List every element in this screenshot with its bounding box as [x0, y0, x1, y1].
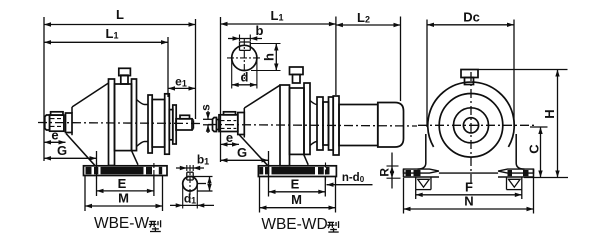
dimension h — [275, 44, 277, 71]
svg-text:G: G — [57, 143, 67, 158]
middle view: bolt hole centerline right — [325, 163, 327, 181]
middle view: extension line shaft end (x=220.5) — [220, 17, 222, 162]
dimension E (middle) — [269, 191, 326, 193]
dimension G (middle) — [221, 159, 269, 161]
left view: front ring — [66, 113, 73, 133]
right view: lug hatch left — [406, 170, 412, 176]
dimension C — [540, 127, 542, 178]
left view: dimension extension line (shaft end, x=44) — [43, 17, 45, 161]
right view: base left lug — [404, 169, 439, 173]
svg-text:C: C — [526, 144, 541, 154]
dimension e (input shaft) — [44, 141, 66, 143]
detail crosshair horizontal — [227, 57, 262, 59]
left view: hub hidden lines — [51, 118, 63, 120]
dimension G — [44, 157, 97, 159]
right view: lug hatch right — [508, 170, 513, 176]
svg-text:H: H — [542, 109, 557, 118]
left view: output shaft key — [180, 115, 190, 119]
middle view: breather plug cap — [290, 67, 304, 75]
middle view: input shaft neck — [217, 120, 220, 130]
label n-d0 leader — [327, 184, 373, 186]
right view: V mark left — [418, 179, 430, 187]
left view: cone housing top line — [72, 83, 109, 107]
svg-text:M: M — [118, 190, 129, 205]
svg-text:WBE-WD: WBE-WD — [261, 216, 327, 233]
right view: outer housing arc — [428, 82, 514, 147]
dimension R — [391, 153, 393, 189]
middle view: main body — [290, 88, 305, 154]
left view: breather plug stem — [121, 75, 128, 84]
right view: V mark right — [509, 179, 521, 187]
detail keyway slot b1 — [187, 172, 193, 180]
detail d1 vertical centerline — [189, 165, 191, 203]
left view: neck with fillets — [137, 100, 149, 147]
middle view: bolt hole centerline left — [268, 163, 270, 181]
dimension b — [228, 38, 262, 40]
left view: base bolt hatch right — [146, 167, 152, 174]
left view: output ring 2 — [152, 100, 165, 148]
dimension N — [404, 208, 534, 210]
dimension H — [557, 70, 559, 178]
left view: output shaft — [176, 119, 192, 130]
dimension M — [85, 205, 163, 207]
left view: extension line shaft end right (x=195.5) — [195, 19, 197, 119]
left view: centerline — [38, 123, 203, 124]
left view: output ring 1 — [148, 95, 152, 153]
left view: cone housing bottom line — [66, 134, 95, 166]
middle view: cone front edge — [243, 108, 245, 113]
left view: base center section fill — [101, 167, 144, 174]
right view: bolt pocket box left — [415, 177, 417, 190]
dimension E — [97, 190, 154, 192]
middle view: motor flange — [333, 96, 339, 155]
dimension L — [44, 24, 196, 26]
middle view: cone bottom line — [239, 135, 268, 166]
dimension b1 extensions — [186, 165, 188, 171]
left view: input hub block — [50, 115, 64, 131]
dimension L1 (middle) — [221, 23, 336, 25]
svg-text:G: G — [237, 145, 247, 160]
left view: bolt hole centerline left — [96, 163, 98, 179]
middle view: input hub block — [219, 115, 238, 132]
svg-text:F: F — [465, 179, 473, 194]
right view: vertical centerline — [470, 72, 472, 184]
dimension s arrows — [207, 111, 209, 119]
right view: top plug stem — [465, 78, 474, 85]
middle view: centerline — [208, 125, 417, 127]
left view: output ring 5 — [173, 105, 176, 144]
middle view: front ring — [238, 113, 245, 135]
svg-text:d: d — [241, 70, 249, 85]
left view: input shaft tip — [45, 115, 50, 130]
svg-text:WBE-W: WBE-W — [94, 215, 149, 232]
svg-text:E: E — [291, 176, 300, 191]
middle view: ring 2 — [323, 102, 329, 145]
left view: output shaft tip step — [192, 119, 194, 121]
dimension d extensions — [231, 60, 233, 89]
right view: Dc extension lines — [426, 20, 428, 128]
detail circle d — [232, 45, 257, 70]
right view: base right lug — [498, 169, 533, 173]
middle view: ring 1 — [317, 97, 323, 150]
dimension d — [232, 84, 257, 86]
middle view: breather plug stem — [293, 75, 301, 84]
svg-text:L: L — [116, 7, 124, 22]
svg-text:M: M — [291, 192, 302, 207]
svg-text:E: E — [118, 176, 127, 191]
svg-text:N: N — [464, 194, 473, 209]
middle view: ring 3 — [329, 97, 334, 150]
svg-text:R: R — [377, 168, 391, 177]
middle view: M extension lines — [259, 177, 261, 213]
left view: bolt hole centerline right — [153, 163, 155, 179]
svg-text:h: h — [261, 53, 276, 61]
dimension h extensions — [250, 43, 280, 45]
right view: shaft hole circle — [463, 118, 478, 133]
middle view: base bolt hatch right — [318, 167, 324, 174]
detail keyway slot b — [240, 42, 251, 50]
dimension L1 — [44, 41, 168, 43]
detail circle d1 — [183, 176, 198, 191]
detail key depth arrows — [209, 177, 211, 192]
left view: front flange — [109, 79, 115, 166]
dimension d1 extensions — [182, 186, 184, 209]
dimension b extensions — [239, 35, 241, 42]
dimension b1 — [176, 167, 204, 169]
middle view: base bolt hatch left — [259, 167, 263, 174]
right view: flange circle — [439, 94, 503, 158]
middle view: input shaft tip — [213, 118, 217, 132]
dimension F — [416, 194, 522, 196]
svg-text:b: b — [256, 23, 264, 38]
middle view: rear support diagonal — [304, 154, 309, 164]
dimension e (middle) — [221, 143, 240, 145]
svg-text:e: e — [51, 127, 58, 142]
left view: rear flange — [132, 79, 137, 151]
detail key depth lines — [194, 176, 213, 178]
right view: F extension lines — [415, 190, 417, 199]
left view: base plate — [84, 166, 168, 176]
svg-text:e: e — [226, 130, 233, 145]
left view: E extension lines — [96, 151, 98, 196]
right view: H top extension — [479, 69, 568, 71]
svg-text:Dc: Dc — [463, 9, 480, 24]
right view: N extension lines — [403, 178, 405, 214]
dimension s ticks — [203, 118, 212, 120]
middle view: extension line L1/L2 (x=335.9) — [335, 17, 337, 96]
right view: bearing circle — [454, 108, 489, 143]
middle view: rear flange — [304, 83, 310, 154]
left view: input hub lid — [51, 112, 63, 115]
detail crosshair vertical — [243, 38, 245, 79]
left view: M extension lines — [84, 176, 86, 211]
left view: output ring 4 — [169, 110, 173, 140]
right view: bottom extension — [524, 177, 568, 179]
right view: horizontal centerline — [418, 124, 537, 126]
right view: bolt pocket box right — [506, 177, 508, 190]
middle view: neck with fillets — [310, 101, 317, 146]
dimension Dc — [427, 24, 514, 26]
middle view: front flange — [280, 85, 290, 166]
left view: breather plug cap — [119, 68, 131, 75]
dimension L2 — [336, 24, 401, 26]
middle view: hub hidden lines — [221, 120, 237, 122]
left view: output ring 3 — [165, 94, 170, 154]
left view: main body — [115, 84, 132, 151]
left view: extension line L1 right / e1 left — [167, 37, 169, 97]
left view: rear support diagonal — [132, 151, 139, 165]
middle view: motor end cap — [378, 103, 404, 148]
middle view: base center section fill — [272, 167, 316, 174]
right view: pedestal left wall — [425, 134, 427, 163]
middle view: base plate — [258, 166, 336, 177]
middle view: E extension lines — [268, 151, 270, 197]
dimension M (middle) — [260, 207, 336, 209]
dimension d1 — [170, 204, 214, 206]
left view: base bolt hatch left — [86, 167, 92, 174]
middle view: cone top line — [244, 85, 280, 108]
svg-text:s: s — [199, 104, 213, 111]
middle view: extension line L2 right (x=400.5) — [400, 17, 402, 102]
right view: base mid top edge — [439, 172, 498, 174]
left view: cone housing front edge — [71, 107, 73, 113]
right view: pedestal right wall — [515, 134, 517, 163]
right view: C top extension — [530, 126, 548, 128]
right view: top plug cap — [461, 70, 478, 78]
dimension e1 — [168, 87, 196, 89]
middle view: motor body — [339, 105, 378, 146]
middle view: input hub lid — [224, 112, 236, 115]
